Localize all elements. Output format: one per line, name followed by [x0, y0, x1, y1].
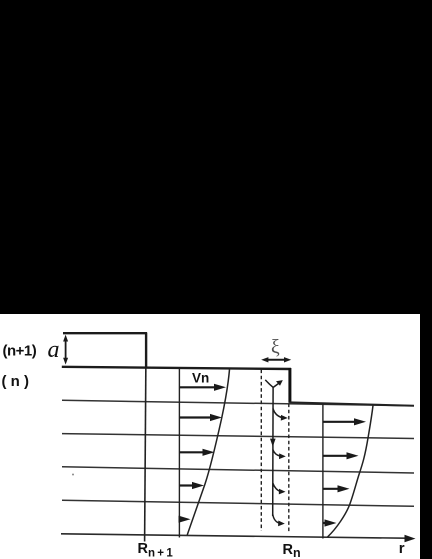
adatom trajectory stem [272, 388, 274, 517]
stray scan dot [72, 474, 74, 476]
right profile arrow 3 [323, 485, 350, 492]
flow line 4 [62, 500, 414, 506]
svg-text:r: r [399, 540, 405, 557]
right profile arrow 4 [323, 519, 337, 526]
svg-text:(n+1): (n+1) [3, 343, 37, 360]
svg-text:( n ): ( n ) [2, 373, 30, 390]
flow line 1 [62, 400, 414, 406]
svg-text:Vn: Vn [192, 371, 209, 386]
left profile arrow 2 [180, 414, 223, 421]
dashed line left of Rn (xi boundary) [260, 370, 262, 532]
terrace (n+1) top line [63, 332, 147, 334]
right black strip [420, 0, 432, 559]
dashed line at Rn [288, 404, 290, 533]
right profile baseline [322, 403, 324, 538]
terrace (n-1) line [290, 402, 415, 405]
trajectory branch below step [273, 409, 288, 421]
step riser at Rn+1 and Rn+1 vertical line [145, 332, 147, 541]
left profile baseline [178, 369, 180, 538]
trajectory Y left branch [265, 380, 273, 388]
left profile arrow 3 [180, 449, 215, 456]
step riser at Rn [288, 368, 291, 403]
trajectory branch 2 [273, 450, 286, 460]
terrace (n) line [62, 367, 291, 369]
svg-text:a: a [48, 337, 60, 363]
right profile arrow 2 [323, 452, 359, 459]
trajectory bottom branch [273, 514, 285, 526]
trajectory down arrowhead [270, 439, 276, 447]
svg-text:ξ: ξ [271, 337, 280, 358]
right profile envelope curve [328, 406, 374, 538]
xi double-headed arrow [261, 357, 291, 362]
top black band [0, 0, 432, 314]
r axis [61, 534, 416, 542]
a double-headed arrow [63, 335, 68, 365]
left profile arrow 4 [180, 482, 205, 489]
trajectory Y right branch with arrowhead [273, 380, 283, 387]
left profile arrow 5 [179, 516, 191, 523]
flow line 2 [62, 434, 414, 439]
trajectory branch 3 [273, 483, 286, 494]
flow line 3 [62, 467, 414, 473]
left profile arrow 1 [180, 384, 227, 391]
right profile arrow 1 [323, 418, 366, 425]
left profile envelope curve [187, 370, 229, 536]
